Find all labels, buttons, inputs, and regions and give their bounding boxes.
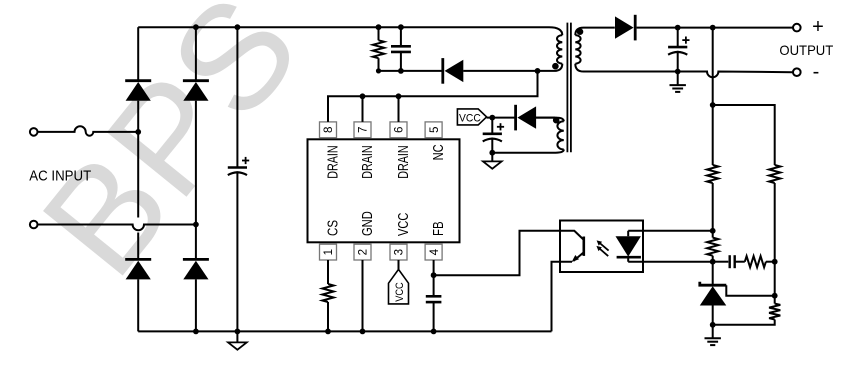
wire snubber bottom [379,70,538,72]
node fuse-bridge junction [135,129,141,135]
transformer T1 primary winding [538,27,563,71]
svg-text:DRAIN: DRAIN [324,145,341,179]
node FB junction [431,272,437,278]
zener U3 TL431 [700,282,775,306]
wire LED anode out [628,230,713,232]
label GND pin2 [359,211,376,236]
node pin1 bus junction [325,329,331,335]
svg-text:2: 2 [357,249,370,255]
svg-text:OUTPUT: OUTPUT [779,42,833,58]
node snubber R rail junction [376,24,382,30]
wire FB to opto [434,231,560,275]
node VCC junction [489,115,495,121]
svg-text:CS: CS [324,220,341,236]
polarity dot primary [552,63,559,70]
node R7 right junction [772,259,778,265]
node snubber bottom left [376,68,381,73]
transformer T1 aux winding [492,118,564,153]
node pin7 bus junction [360,93,366,99]
wire pin3 stub [398,260,400,269]
wire R5 down [774,183,776,296]
wire col2 lower [195,225,197,260]
wire bridge col1 upper [137,27,139,80]
resistor R4 [707,231,718,262]
transistor Q1 emitter [572,252,584,262]
terminal AC neutral [30,221,38,229]
diode D2 [183,81,209,101]
node pin6 bus junction [396,93,402,99]
label FB pin4 [430,221,447,236]
pin 1 [320,244,337,260]
svg-text:7: 7 [357,127,370,133]
wire bottom bus [138,330,551,332]
svg-text:+: + [812,16,824,38]
resistor R6 [713,296,781,325]
terminal output minus [793,68,801,76]
node opto cathode junction [710,259,716,265]
wire R3 to opto node [712,183,714,231]
pin 6 [390,122,407,138]
terminal output plus [793,24,801,32]
watermark BPS [10,0,331,305]
wire pin4 to node [433,260,435,296]
terminal AC line [30,128,38,136]
label DRAIN pin8 [324,145,341,179]
label DRAIN pin6 [395,145,412,179]
net flag VCC at pin3 [389,269,409,304]
capacitor C3 output [668,28,689,72]
node ref junction [772,293,778,299]
pin 3 [390,244,407,260]
label OUTPUT [779,42,833,58]
wire top rail right [584,27,794,29]
node plus rail junction [710,25,716,31]
capacitor C1 [228,157,249,175]
wire bridge col2 upper [195,27,197,80]
svg-text:6: 6 [393,127,406,133]
node pin2 bus junction [360,329,366,335]
wire col1 mid [137,132,139,260]
fuse F1 [38,126,138,135]
opto light arrows [596,240,608,256]
capacitor C4 VCC [483,118,504,153]
node divider top junction [710,102,716,108]
label output minus [813,61,820,83]
wire pin7 stub [362,96,364,122]
label VCC pin3 [395,213,412,236]
wire C1 to bus [236,171,238,331]
svg-text:1: 1 [322,249,335,255]
polarity dot secondary [577,28,584,35]
node neutral-bridge junction [193,222,199,228]
wire drain bus [328,71,538,122]
svg-text:5: 5 [428,127,441,133]
wire D3 to bus [137,279,139,331]
label DRAIN pin7 [359,145,376,179]
svg-text:VCC: VCC [459,112,481,124]
capacitor C2 snubber [391,27,411,71]
polarity dot aux [553,117,560,124]
node snubber bottom C junction [398,68,404,74]
transformer T1 secondary winding [575,28,583,72]
pin 5 [425,122,442,138]
LED opto [616,231,641,262]
node C3 bottom junction [675,69,681,75]
wire D2 to neutral node [195,101,197,225]
diode D1 [125,81,151,101]
pin 2 [354,244,371,260]
node C4 bottom junction [489,150,495,156]
opto U2 box [560,221,643,273]
ground chassis at C1 [228,331,247,349]
ground chassis at C4 [483,153,502,169]
node output cap junction top [675,25,681,31]
pin 8 [320,122,337,138]
ground earth at TL431 [705,325,721,345]
transformer T1 core [567,23,571,153]
pin 4 [425,244,442,260]
capacitor C6 comp [713,255,745,268]
wire opto emitter out [552,262,573,332]
node col2 rail junction [193,24,199,30]
transistor Q1 opto base bar [582,237,585,256]
label NC pin5 [430,144,447,160]
wire LED cathode out [628,261,713,263]
wire zener to ground node [712,262,714,325]
capacitor C5 FB [426,296,442,331]
wire D4 to bus [195,279,197,331]
svg-text:DRAIN: DRAIN [359,145,376,179]
label output plus [812,16,824,38]
node opto anode junction [710,228,716,234]
node C5 bus junction [431,329,437,335]
wire output minus [584,72,794,78]
diode D6 output [615,15,635,41]
op-amp U1 body [308,139,460,242]
pin 7 [354,122,371,138]
wire opto collector inside [560,231,584,240]
node zener anode junction [710,322,716,328]
net flag VCC top [457,109,486,125]
svg-text:VCC: VCC [395,213,412,236]
node bulk cap rail junction [235,24,241,30]
wire D1 to fuse node [137,101,139,132]
svg-text:DRAIN: DRAIN [395,145,412,179]
diode D7 aux [516,105,537,131]
label AC INPUT [29,167,91,184]
wire rail branch [713,105,775,165]
svg-text:NC: NC [430,144,447,160]
node C1 bus junction [235,329,241,335]
wire VCC node [487,117,555,119]
resistor R2 CS [322,260,333,331]
node primary bottom junction [535,68,541,74]
diode D3 [125,259,151,279]
svg-text:-: - [813,61,820,83]
svg-text:8: 8 [322,127,335,133]
ground earth at C3 [670,72,686,92]
diode D4 [183,259,209,279]
resistor R7 comp [745,256,775,267]
svg-text:4: 4 [428,248,441,255]
svg-text:GND: GND [359,211,376,236]
diode D5 clamp [443,58,464,84]
svg-text:FB: FB [430,221,447,236]
wire top rail [138,26,549,28]
svg-text:3: 3 [393,249,406,255]
svg-text:VCC: VCC [394,282,406,302]
node col2 bus junction [193,329,199,335]
resistor R3 [707,165,718,183]
svg-text:AC INPUT: AC INPUT [29,167,91,184]
node snubber C rail junction [398,24,404,30]
resistor R5 [769,165,780,183]
wire plus rail down [712,28,714,165]
wire AC neutral with hop [38,225,196,231]
wire rail to C1 [236,27,238,167]
resistor R1 snubber [373,27,384,71]
wire pin6 stub [398,96,400,122]
wire pin2 to bus [362,260,364,331]
label CS pin1 [324,220,341,236]
